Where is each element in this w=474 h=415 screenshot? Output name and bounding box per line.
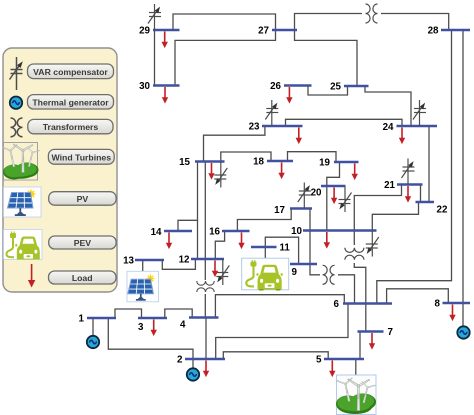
wire 6-10 via transformer: [354, 231, 366, 304]
svg-text:Wind Turbines: Wind Turbines: [51, 152, 111, 162]
legend PEV image: [4, 230, 43, 260]
svg-text:25: 25: [330, 82, 341, 93]
load bus 2: [203, 361, 209, 378]
svg-text:24: 24: [383, 122, 394, 133]
bus 17: [290, 207, 312, 209]
load bus 24: [399, 128, 405, 145]
svg-text:21: 21: [384, 180, 395, 191]
bus 23: [262, 125, 303, 127]
wire 12-16: [215, 231, 224, 259]
legend pill Load: [49, 271, 117, 284]
legend box: [3, 48, 117, 292]
VAR compensator bus 20: [339, 186, 352, 212]
PV at bus 13: [127, 271, 159, 302]
wire 4-12 via transformer: [204, 259, 206, 318]
wire 21-22: [420, 185, 422, 203]
svg-text:16: 16: [209, 227, 220, 238]
wire 10-21: [354, 185, 401, 231]
svg-text:4: 4: [180, 320, 186, 331]
wire 8-generator: [462, 303, 464, 326]
wire 6-9 via transformer: [310, 264, 355, 304]
svg-text:29: 29: [139, 26, 150, 37]
svg-text:2: 2: [177, 355, 183, 366]
wire 5-7: [359, 332, 361, 360]
VAR compensator bus 15: [214, 162, 227, 188]
load bus 12: [212, 261, 218, 278]
thermal generator bus 1: [87, 336, 99, 348]
load bus 14: [166, 233, 172, 250]
bus 28: [441, 29, 470, 31]
bus 3: [138, 317, 167, 319]
legend pill Transformers: [28, 119, 113, 133]
svg-text:26: 26: [270, 81, 281, 92]
svg-text:VAR compensator: VAR compensator: [33, 67, 108, 77]
bus 9: [290, 263, 317, 265]
load bus 5: [329, 361, 335, 378]
bus 6: [343, 302, 392, 304]
wire 16-17: [237, 209, 291, 232]
svg-text:Transformers: Transformers: [43, 122, 99, 132]
bus 13: [135, 259, 164, 261]
svg-text:PEV: PEV: [74, 238, 92, 248]
bus 25: [344, 85, 369, 87]
legend pill Wind Turbines: [48, 149, 114, 164]
VAR compensator bus 21: [402, 159, 415, 185]
svg-text:17: 17: [274, 205, 285, 216]
svg-text:Thermal generator: Thermal generator: [32, 97, 109, 107]
transformer 27-28: [362, 3, 381, 24]
wire 6-28: [377, 30, 452, 304]
svg-text:22: 22: [437, 205, 448, 216]
svg-text:12: 12: [179, 255, 190, 266]
load bus 8: [449, 305, 455, 322]
wire 27-30: [175, 30, 276, 86]
load bus 3: [151, 320, 157, 337]
bus 15: [195, 160, 225, 162]
wire 13-PV: [142, 260, 144, 271]
wire 8-28: [462, 30, 464, 303]
bus 12: [191, 258, 224, 260]
wire 1-generator: [92, 318, 94, 336]
wire 12-14 branch: [178, 220, 198, 231]
svg-text:14: 14: [151, 227, 162, 238]
load bus 16: [238, 233, 244, 250]
svg-text:PV: PV: [77, 194, 89, 204]
wire 6-8: [387, 289, 449, 304]
wire 4-6: [215, 295, 344, 318]
svg-text:19: 19: [319, 158, 330, 169]
VAR compensator bus 29: [148, 4, 161, 30]
load bus 23: [296, 128, 302, 145]
load bus 21: [405, 186, 411, 203]
load bus 26: [286, 87, 292, 104]
svg-text:28: 28: [428, 26, 439, 37]
load bus 19: [352, 164, 358, 181]
bus 26: [284, 84, 312, 86]
transformer 6-10: [344, 245, 365, 263]
bus 24: [397, 125, 438, 127]
thermal generator bus 2: [187, 368, 199, 380]
wire 2-4: [205, 318, 207, 360]
bus 5: [324, 358, 364, 360]
legend VAR compensator icon: [10, 57, 23, 90]
bus 7: [358, 330, 384, 332]
svg-text:30: 30: [139, 81, 150, 92]
wire 29-27: [173, 14, 276, 30]
load bus 7: [369, 333, 375, 350]
load bus 29: [162, 32, 168, 49]
bus 14: [164, 230, 192, 232]
transformer 4-12: [196, 280, 216, 294]
wire 29-30: [154, 30, 156, 86]
wire 5-wind: [355, 359, 357, 375]
svg-text:3: 3: [138, 322, 144, 333]
bus 29: [153, 29, 180, 31]
bus 10: [303, 229, 377, 231]
VAR compensator bus 17: [298, 183, 311, 209]
svg-text:8: 8: [435, 299, 441, 310]
bus 8: [443, 302, 471, 304]
legend thermal generator icon: [10, 97, 22, 109]
legend PV image: [4, 187, 42, 217]
wire 23-24: [286, 119, 403, 126]
wire 15-18: [221, 152, 271, 162]
wire 9-10: [309, 231, 311, 265]
wire 25-26: [308, 86, 348, 96]
wire 1-3: [115, 309, 142, 318]
bus 22: [416, 201, 435, 203]
legend pill PV: [49, 192, 116, 206]
wire 24-25: [365, 86, 411, 126]
wire 10-20: [326, 186, 328, 231]
svg-text:10: 10: [291, 226, 302, 237]
wire 1-2: [108, 318, 193, 359]
wire 9-11: [265, 237, 298, 264]
legend pill PEV: [49, 236, 116, 249]
load bus 15: [208, 163, 214, 180]
VAR compensator bus 12: [216, 259, 229, 285]
bus 1: [87, 317, 116, 319]
svg-text:20: 20: [311, 188, 322, 199]
bus 27: [272, 29, 297, 31]
wire 11-PEV: [264, 247, 266, 259]
bus 30: [153, 84, 180, 86]
wire 18-19: [288, 152, 337, 162]
wire 19-20: [327, 162, 340, 186]
bus 18: [267, 160, 293, 162]
svg-text:13: 13: [123, 256, 134, 267]
svg-text:11: 11: [280, 243, 291, 254]
legend pill Thermal generator: [28, 95, 114, 109]
wire 6-7: [365, 304, 367, 332]
wire 27-28 via transformer: [295, 14, 449, 31]
wire 25-27: [295, 30, 358, 86]
bus 21: [397, 183, 423, 185]
wire 2-6: [216, 304, 348, 360]
wire 12-13: [162, 259, 195, 269]
transformer 6-9: [320, 265, 338, 285]
load bus 18: [278, 163, 284, 180]
svg-text:Load: Load: [72, 273, 93, 283]
legend load arrow: [28, 264, 35, 288]
svg-text:15: 15: [179, 157, 190, 168]
wire 10-17: [309, 209, 311, 231]
VAR compensator bus 10: [366, 231, 379, 257]
wire 22-24: [428, 126, 430, 202]
VAR compensator bus 24: [413, 100, 426, 126]
bus 19: [334, 161, 359, 163]
PEV at bus 11: [242, 258, 289, 290]
wire 15-23: [204, 126, 265, 162]
bus 20: [321, 185, 346, 187]
legend pill VAR compensator: [28, 64, 114, 79]
svg-text:18: 18: [253, 157, 264, 168]
wire 2-5: [223, 352, 328, 359]
legend wind turbines image: [2, 143, 40, 181]
wire 2-generator: [192, 359, 194, 369]
svg-text:27: 27: [258, 26, 269, 37]
bus 4: [189, 316, 219, 318]
bus 11: [251, 246, 277, 248]
wire 12-15 second: [204, 162, 206, 260]
svg-text:1: 1: [79, 314, 85, 325]
bus 2: [185, 358, 225, 360]
legend transformers icon: [11, 118, 23, 137]
wire 10-22: [372, 202, 418, 231]
wire 12-15: [197, 162, 199, 260]
load bus 20: [331, 188, 337, 205]
load bus 30: [162, 87, 168, 104]
svg-text:5: 5: [316, 355, 322, 366]
wire 3-4: [165, 309, 192, 318]
svg-text:9: 9: [292, 267, 298, 278]
svg-text:6: 6: [334, 299, 340, 310]
VAR compensator bus 23: [265, 100, 278, 126]
load bus 10: [324, 232, 330, 249]
thermal generator bus 8: [457, 326, 469, 338]
bus 16: [222, 230, 250, 232]
svg-text:7: 7: [388, 327, 394, 338]
wind turbines at bus 5: [336, 375, 376, 415]
svg-text:23: 23: [249, 122, 260, 133]
